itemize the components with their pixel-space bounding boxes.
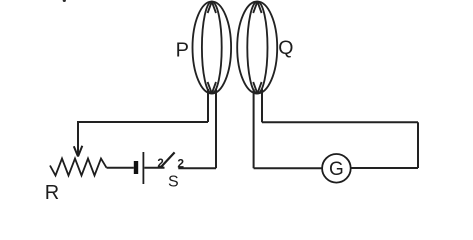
- svg-text:P: P: [176, 39, 189, 61]
- wire: P left lead: [207, 89, 209, 122]
- wire: right vertical: [417, 122, 419, 168]
- wire: Q left lead: [253, 89, 255, 168]
- battery negative plate (short thick): [134, 161, 138, 174]
- wire: Q right lead: [261, 89, 263, 122]
- wire: galvanometer to right vertical: [351, 167, 418, 169]
- wire: top-right horizontal: [262, 121, 418, 123]
- switch S lever: [160, 152, 174, 167]
- wire: resistor to battery: [107, 167, 134, 169]
- wire: P right lead: [215, 89, 217, 168]
- wire: switch to P right lead: [178, 167, 216, 169]
- rheostat wiper arrowhead: [74, 146, 83, 157]
- galvanometer G: [322, 154, 351, 183]
- resistor R (rheostat zigzag): [50, 159, 107, 176]
- svg-text:G: G: [329, 159, 344, 180]
- svg-text:S: S: [168, 174, 179, 191]
- wire: top-left horizontal to wiper: [78, 122, 208, 154]
- svg-text:Q: Q: [278, 37, 293, 59]
- wire: battery to switch left contact: [144, 167, 164, 169]
- coil P: [193, 2, 232, 94]
- battery positive plate (long thin): [142, 152, 144, 184]
- wire: Q left lead to galvanometer: [254, 167, 323, 169]
- coil Q: [237, 2, 277, 94]
- svg-text:R: R: [45, 182, 59, 204]
